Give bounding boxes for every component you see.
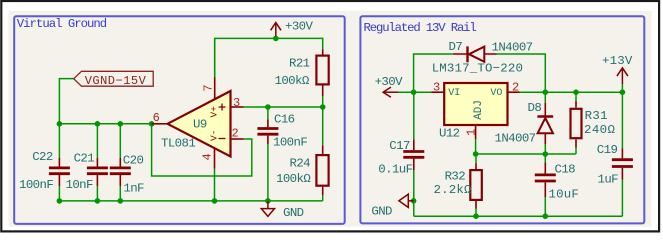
svg-text:7: 7	[201, 84, 215, 91]
wire GND drop	[413, 201, 415, 216]
section box Regulated 13V Rail	[360, 16, 644, 223]
junction D8/C18 mid	[543, 151, 549, 157]
svg-text:+13V: +13V	[602, 54, 633, 68]
svg-text:100nF: 100nF	[19, 178, 53, 192]
capacitor C20	[110, 158, 131, 186]
junction R32 bottom	[473, 213, 479, 219]
wire pin3 rail to C16 and R21/R24	[244, 106, 323, 108]
wire feedback loop pin2 to output	[152, 124, 252, 176]
ground symbol GND (left panel)	[261, 201, 274, 217]
svg-text:V+: V+	[209, 106, 220, 118]
wire output net VGND rail	[59, 123, 151, 125]
ground symbol GND (right panel)	[399, 194, 414, 207]
wire pin7 supply drop	[214, 38, 216, 77]
power symbol +30V arrow (right panel)	[383, 87, 399, 97]
global label VGND-15V	[74, 71, 154, 88]
svg-text:R31: R31	[585, 109, 608, 123]
diode D7	[453, 46, 497, 62]
wire R31 column	[575, 92, 577, 154]
svg-text:+30V: +30V	[285, 20, 314, 34]
section box Virtual Ground	[14, 16, 345, 224]
resistor R31	[571, 101, 582, 148]
wire V+ supply rail to +30V and R21	[215, 38, 323, 77]
svg-text:C20: C20	[123, 153, 144, 167]
svg-text:1nF: 1nF	[123, 181, 144, 195]
junction C20 top	[118, 121, 124, 127]
svg-text:+30V: +30V	[375, 75, 404, 89]
regulator U12 pins	[432, 92, 520, 139]
capacitor C18	[535, 163, 556, 198]
resistor R24	[316, 145, 328, 195]
svg-text:100kΩ: 100kΩ	[275, 74, 310, 88]
svg-text:240Ω: 240Ω	[584, 123, 616, 137]
svg-text:U12: U12	[439, 127, 460, 141]
wire D8 column	[544, 92, 546, 154]
svg-text:2: 2	[232, 127, 239, 141]
svg-text:GND: GND	[371, 205, 392, 219]
svg-text:R21: R21	[289, 56, 310, 70]
resistor R21	[316, 49, 328, 96]
junction C18 bottom	[543, 213, 549, 219]
junction pin4 bottom	[212, 198, 218, 204]
junction C16 top	[265, 104, 271, 110]
svg-text:1N4007: 1N4007	[492, 41, 533, 55]
junction C21 top	[95, 121, 101, 127]
wire D7 bypass loop	[414, 54, 546, 92]
svg-text:3: 3	[433, 81, 440, 95]
junction ADJ node	[473, 151, 479, 157]
svg-text:C17: C17	[389, 139, 410, 153]
wire C22 column	[58, 124, 60, 201]
junction VGND/C22 top	[57, 121, 63, 127]
junction VO/D8 top	[543, 89, 549, 95]
power symbol +13V arrow	[617, 68, 628, 84]
wire R24 top	[322, 107, 324, 145]
junction R21/R24/pin3	[320, 104, 326, 110]
svg-text:C19: C19	[597, 143, 618, 157]
svg-text:TL081: TL081	[161, 137, 195, 151]
junction GND symbol	[265, 198, 271, 204]
wire pin4 ground drop	[214, 169, 216, 201]
junction C22 bottom	[57, 198, 63, 204]
svg-text:GND: GND	[283, 206, 304, 220]
wire C20 column	[119, 124, 121, 201]
wire ground bottom rail	[59, 200, 322, 202]
svg-text:2: 2	[512, 81, 519, 95]
svg-text:VGND−15V: VGND−15V	[85, 74, 147, 88]
svg-text:Virtual Ground: Virtual Ground	[17, 17, 107, 31]
junction GND node	[411, 198, 417, 204]
op-amp input polarity marks	[219, 104, 226, 139]
op-amp U9 body	[168, 91, 231, 157]
svg-text:C18: C18	[555, 163, 576, 177]
svg-text:D7: D7	[449, 40, 463, 54]
junction +13V/C19 top	[620, 89, 626, 95]
wire ADJ rail	[476, 153, 576, 155]
svg-text:0.1uF: 0.1uF	[378, 162, 412, 176]
capacitor C21	[87, 158, 108, 186]
junction output/feedback	[149, 121, 155, 127]
svg-text:C22: C22	[32, 150, 53, 164]
svg-text:C16: C16	[274, 112, 295, 126]
wire R21 bottom	[322, 96, 324, 107]
svg-text:100nF: 100nF	[273, 136, 307, 150]
svg-text:10uF: 10uF	[549, 188, 580, 202]
svg-text:1: 1	[465, 129, 479, 136]
wire VGND label drop	[59, 79, 73, 124]
wire C18 column	[544, 154, 546, 216]
svg-text:4: 4	[201, 153, 215, 160]
junction +30V supply	[273, 36, 279, 42]
diode D8	[537, 103, 553, 144]
svg-text:VI: VI	[448, 88, 460, 99]
svg-text:R32: R32	[445, 169, 466, 183]
capacitor C16	[257, 120, 278, 145]
junction C20 bottom	[118, 198, 124, 204]
svg-text:100kΩ: 100kΩ	[276, 172, 311, 186]
capacitor C22	[49, 158, 70, 186]
svg-text:6: 6	[153, 111, 160, 125]
junction R31 top	[573, 89, 579, 95]
svg-text:VO: VO	[490, 88, 502, 99]
wire +30V to VI pin	[399, 91, 432, 93]
wire R24 bottom	[322, 195, 324, 201]
svg-text:1N4007: 1N4007	[495, 132, 536, 146]
wire C16 column	[267, 107, 269, 201]
wire C21 column	[96, 124, 98, 201]
wire VO output rail	[520, 91, 623, 93]
capacitor C17	[403, 139, 424, 170]
op-amp U9 pins	[152, 78, 244, 169]
wire C17 column	[413, 92, 415, 201]
junction VI input node	[411, 89, 417, 95]
wire C19 column	[621, 92, 623, 216]
svg-text:2.2kΩ: 2.2kΩ	[434, 183, 473, 197]
wire ground bottom rail	[414, 215, 623, 217]
regulator U12 LM317 body	[444, 83, 507, 125]
svg-text:U9: U9	[193, 118, 207, 132]
svg-text:R24: R24	[290, 157, 311, 171]
capacitor C19	[612, 148, 633, 179]
wire R32 column	[475, 154, 477, 216]
svg-text:Regulated 13V Rail: Regulated 13V Rail	[364, 21, 477, 35]
wire +13V stub	[621, 84, 623, 92]
svg-text:1uF: 1uF	[598, 173, 619, 187]
power symbol +30V (left panel)	[271, 23, 281, 37]
junction C21 bottom	[95, 198, 101, 204]
svg-text:C21: C21	[74, 152, 95, 166]
resistor R32	[470, 163, 482, 208]
svg-text:LM317_TO−220: LM317_TO−220	[432, 62, 523, 76]
svg-text:3: 3	[233, 96, 240, 110]
wire ADJ pin column	[475, 139, 477, 154]
svg-text:V-: V-	[209, 130, 220, 141]
svg-text:D8: D8	[528, 101, 542, 115]
svg-text:10nF: 10nF	[66, 178, 94, 192]
svg-text:ADJ: ADJ	[473, 100, 485, 120]
